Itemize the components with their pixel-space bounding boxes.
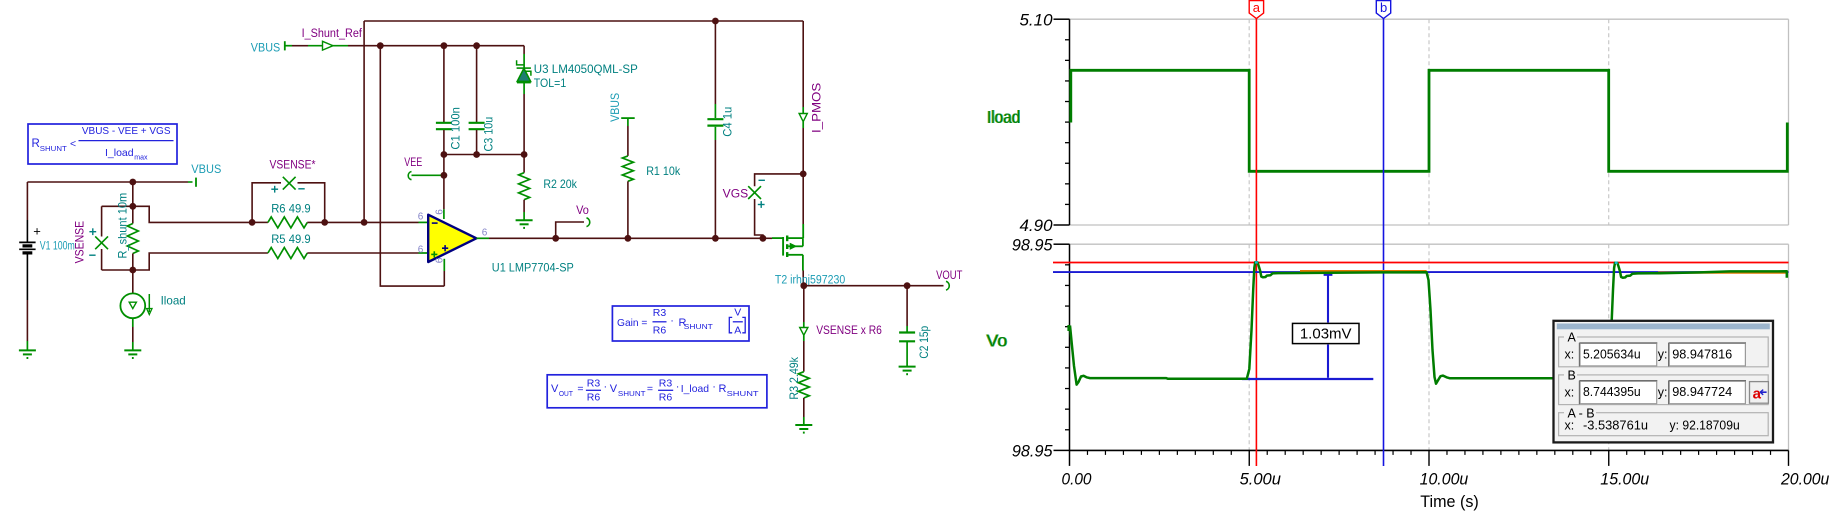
svg-text:6: 6: [418, 212, 424, 223]
svg-text:U1 LMP7704-SP: U1 LMP7704-SP: [492, 261, 574, 275]
svg-text:SHUNT: SHUNT: [618, 389, 646, 398]
svg-text:·: ·: [670, 315, 674, 327]
svg-text:y: 92.18709u: y: 92.18709u: [1670, 418, 1740, 433]
svg-text:4.90: 4.90: [1020, 216, 1054, 235]
svg-text:98.95: 98.95: [1012, 442, 1053, 461]
svg-text:VBUS: VBUS: [251, 41, 280, 55]
svg-text:98.95: 98.95: [1012, 236, 1053, 255]
svg-text:R3: R3: [653, 307, 667, 319]
svg-text:R6: R6: [587, 392, 601, 404]
svg-text:R3 2.49k: R3 2.49k: [787, 356, 801, 399]
svg-text:SHUNT: SHUNT: [40, 144, 67, 153]
svg-text:5.205634u: 5.205634u: [1583, 346, 1641, 361]
svg-text:VBUS - VEE + VGS: VBUS - VEE + VGS: [82, 126, 171, 137]
svg-text:TOL=1: TOL=1: [534, 76, 567, 90]
svg-text:8.744395u: 8.744395u: [1583, 384, 1641, 399]
svg-text:<: <: [70, 138, 76, 150]
svg-text:I_load: I_load: [105, 147, 134, 159]
svg-text:SHUNT: SHUNT: [727, 389, 760, 398]
svg-text:=: =: [577, 383, 583, 395]
svg-text:max: max: [134, 155, 148, 162]
svg-text:x:: x:: [1565, 348, 1575, 362]
svg-text:R3: R3: [659, 378, 673, 390]
svg-text:Gain =: Gain =: [617, 317, 647, 329]
svg-text:R2 20k: R2 20k: [543, 177, 577, 191]
svg-text:VGS: VGS: [723, 188, 749, 200]
svg-text:I_Shunt_Ref: I_Shunt_Ref: [302, 28, 363, 40]
svg-text:Iload: Iload: [987, 107, 1020, 127]
svg-text:=: =: [647, 383, 653, 395]
svg-text:-3.538761u: -3.538761u: [1583, 418, 1648, 433]
svg-text:B: B: [1568, 369, 1576, 383]
svg-text:b: b: [1380, 0, 1387, 15]
svg-text:·: ·: [604, 381, 608, 393]
svg-text:Vo: Vo: [576, 205, 589, 217]
svg-text:10.00u: 10.00u: [1420, 469, 1469, 488]
svg-text:R: R: [719, 383, 727, 395]
svg-text:V: V: [734, 306, 741, 318]
svg-text:VSENSE: VSENSE: [75, 221, 87, 264]
svg-text:0.00: 0.00: [1062, 469, 1092, 488]
svg-text:5.10: 5.10: [1020, 11, 1054, 30]
svg-text:V: V: [610, 383, 618, 395]
svg-text:R6: R6: [659, 392, 673, 404]
svg-text:1.03mV: 1.03mV: [1300, 326, 1352, 343]
svg-text:R6 49.9: R6 49.9: [271, 202, 311, 216]
svg-text:R5 49.9: R5 49.9: [271, 232, 311, 246]
svg-text:a: a: [1253, 0, 1261, 15]
svg-text:98.947724: 98.947724: [1672, 384, 1732, 399]
svg-text:VOUT: VOUT: [936, 270, 962, 282]
svg-text:98.947816: 98.947816: [1672, 346, 1732, 361]
svg-text:6: 6: [418, 245, 424, 256]
svg-text:a: a: [1753, 385, 1762, 402]
svg-text:OUT: OUT: [559, 389, 573, 398]
svg-text:+: +: [33, 224, 41, 239]
svg-text:x:: x:: [1565, 419, 1575, 433]
svg-text:V: V: [551, 383, 559, 395]
svg-text:y:: y:: [1658, 348, 1668, 362]
svg-text:U3 LM4050QML-SP: U3 LM4050QML-SP: [534, 62, 638, 76]
svg-text:Time (s): Time (s): [1420, 492, 1479, 511]
svg-text:Iload: Iload: [161, 294, 186, 308]
svg-text:15.00u: 15.00u: [1600, 469, 1649, 488]
svg-text:Vo: Vo: [987, 331, 1008, 351]
svg-text:·: ·: [712, 381, 716, 393]
svg-text:R1 10k: R1 10k: [646, 164, 681, 178]
svg-text:6: 6: [482, 228, 488, 239]
svg-text:R: R: [32, 138, 40, 150]
svg-text:5.00u: 5.00u: [1240, 469, 1282, 488]
svg-text:C2 15p: C2 15p: [917, 326, 931, 359]
svg-text:y:: y:: [1658, 385, 1668, 399]
svg-text:A: A: [1568, 331, 1577, 345]
svg-text:T2 irhnj597230: T2 irhnj597230: [775, 275, 845, 287]
svg-text:VEE: VEE: [404, 157, 422, 169]
svg-text:I_load: I_load: [681, 383, 709, 395]
svg-text:A: A: [734, 325, 741, 337]
svg-text:VSENSE*: VSENSE*: [270, 159, 316, 171]
svg-text:C1 100n: C1 100n: [449, 107, 463, 150]
svg-text:·: ·: [676, 381, 680, 393]
svg-text:6: 6: [434, 209, 445, 215]
svg-text:R6: R6: [653, 325, 667, 337]
svg-text:VBUS: VBUS: [191, 162, 221, 176]
svg-text:R3: R3: [587, 378, 601, 390]
svg-text:C3 10u: C3 10u: [481, 117, 495, 152]
svg-text:VSENSE x R6: VSENSE x R6: [816, 325, 882, 337]
svg-text:x:: x:: [1565, 385, 1575, 399]
svg-text:C4 1u: C4 1u: [721, 107, 735, 137]
svg-text:R_shunt 10m: R_shunt 10m: [116, 193, 130, 259]
svg-text:SHUNT: SHUNT: [684, 322, 713, 331]
svg-text:20.00u: 20.00u: [1780, 469, 1830, 488]
svg-text:V1 100m: V1 100m: [40, 239, 75, 253]
svg-text:VBUS: VBUS: [608, 93, 622, 122]
svg-text:I_PMOS: I_PMOS: [812, 82, 824, 133]
